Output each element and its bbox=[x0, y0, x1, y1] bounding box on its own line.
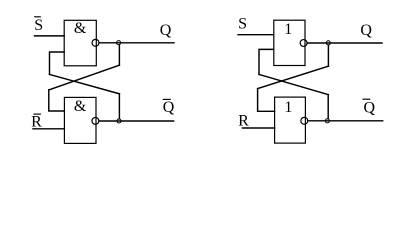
node A junction bbox=[117, 41, 121, 45]
wire S-bar input to U1 bbox=[35, 35, 65, 37]
wire R input to U4 bbox=[243, 127, 275, 129]
svg-text:Q: Q bbox=[163, 99, 175, 116]
output bubble U1 bbox=[92, 39, 99, 46]
wire U4 output to Q-bar bbox=[308, 120, 383, 122]
wire node A down bbox=[118, 45, 120, 65]
NOR gate U4 bbox=[275, 97, 306, 143]
wire U4 upper input hook bbox=[258, 89, 275, 112]
svg-text:Q: Q bbox=[160, 22, 172, 39]
svg-text:R: R bbox=[238, 113, 249, 130]
svg-text:Q: Q bbox=[364, 100, 376, 117]
node B junction bbox=[117, 119, 121, 123]
output bubble U2 bbox=[92, 117, 99, 124]
wire U2 output to Q-bar bbox=[99, 120, 174, 122]
wire node C down bbox=[327, 45, 329, 66]
svg-text:1: 1 bbox=[284, 21, 292, 38]
NAND gate U1 bbox=[64, 20, 96, 66]
node D junction bbox=[325, 119, 329, 123]
NOR gate U3 bbox=[274, 20, 305, 65]
wire node D up bbox=[327, 95, 329, 119]
svg-text:&: & bbox=[74, 98, 87, 115]
input label R-bar bbox=[31, 114, 42, 131]
node C junction bbox=[326, 41, 330, 45]
wire U3 output to Q bbox=[307, 42, 382, 44]
wire cross diagonal node D to U3 input bbox=[259, 74, 328, 94]
svg-text:Q: Q bbox=[360, 22, 372, 39]
svg-text:S: S bbox=[238, 16, 247, 33]
svg-text:1: 1 bbox=[284, 99, 292, 116]
input label S-bar bbox=[34, 17, 43, 34]
NAND gate U2 bbox=[64, 97, 96, 143]
wire cross diagonal node A to U2 input bbox=[49, 65, 120, 90]
wire U1 lower input hook bbox=[50, 52, 65, 74]
wire cross diagonal node B to U1 input bbox=[50, 74, 120, 93]
wire R-bar input to U2 bbox=[33, 128, 64, 130]
svg-text:S: S bbox=[34, 17, 43, 34]
output label Q-bar bbox=[163, 99, 175, 116]
wire U2 upper input hook bbox=[49, 90, 65, 111]
wire S input to U3 bbox=[238, 34, 274, 36]
output bubble U3 bbox=[300, 40, 307, 47]
wire node B up bbox=[118, 94, 120, 119]
output label Q-bar right bbox=[363, 99, 375, 117]
wire cross diagonal node C to U4 input bbox=[258, 66, 329, 88]
wire U3 lower input hook bbox=[259, 49, 274, 74]
svg-text:&: & bbox=[74, 20, 87, 37]
svg-text:R: R bbox=[31, 114, 42, 131]
output bubble U4 bbox=[301, 117, 308, 124]
wire U1 output to Q bbox=[99, 42, 174, 44]
